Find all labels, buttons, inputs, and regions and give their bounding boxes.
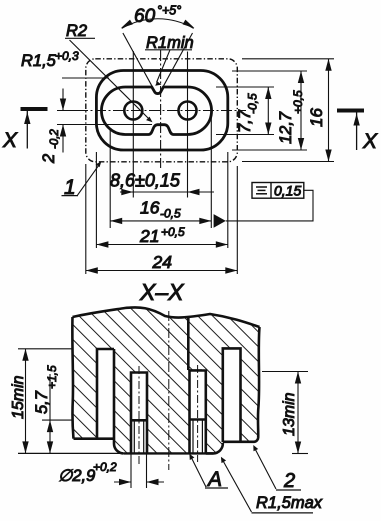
left pin centerline xyxy=(138,366,140,464)
dim 16 height extension lines xyxy=(242,58,334,60)
dim 7,7 extension lines xyxy=(216,86,274,88)
dim 16-0,5 line xyxy=(110,220,211,222)
svg-text:+0,3: +0,3 xyxy=(55,49,79,63)
dim 15min line xyxy=(25,349,27,454)
svg-text:15min: 15min xyxy=(10,375,27,419)
dim 5,7 line xyxy=(49,374,51,453)
left pin hole channel xyxy=(131,373,147,454)
V-notch leg extensions for 60 deg xyxy=(123,33,154,90)
tolerance frame xyxy=(252,183,304,199)
block outline: top wavy edge xyxy=(73,307,260,327)
svg-text:R1,5: R1,5 xyxy=(21,52,57,70)
left wall bottom and slot floor xyxy=(74,437,115,440)
dim dia 2,9 extension lines xyxy=(130,453,132,488)
svg-text:16: 16 xyxy=(307,108,326,127)
60 arc left arrowhead xyxy=(121,20,133,28)
dim 21 line xyxy=(96,244,227,246)
svg-text:21: 21 xyxy=(139,226,159,246)
vertical centerline xyxy=(160,50,162,168)
datum triangle xyxy=(214,214,226,228)
section cut mark left xyxy=(21,107,48,111)
left pin slit edges xyxy=(133,420,135,453)
section block hatched body xyxy=(72,307,259,453)
svg-text:R1,5max: R1,5max xyxy=(256,494,323,512)
60 arc right arrowhead xyxy=(183,20,195,28)
R1,5 leader xyxy=(62,77,109,79)
dim 5,7 extension line xyxy=(42,419,72,421)
central divider step edge xyxy=(187,318,190,370)
pin hole right xyxy=(179,102,197,120)
inner opening contour 16 wide xyxy=(101,87,211,135)
right foot radius xyxy=(206,443,223,454)
dim 16-0,5 extension lines xyxy=(109,129,111,229)
svg-text:24: 24 xyxy=(152,252,173,272)
left contact slot xyxy=(97,349,114,439)
svg-text:5,7: 5,7 xyxy=(33,390,51,414)
svg-text:+1,5: +1,5 xyxy=(45,365,59,389)
dim dia 2,9 line with outside arrows xyxy=(114,481,131,483)
hole axis line right xyxy=(187,52,189,198)
block right edge xyxy=(258,327,260,437)
svg-text:2: 2 xyxy=(40,154,58,164)
datum leader to frame xyxy=(226,190,313,221)
svg-text:∅2,9: ∅2,9 xyxy=(58,467,95,485)
leader 2 xyxy=(255,448,276,489)
right contact slot xyxy=(223,348,241,442)
outer hidden rounded rectangle 24x16 (dashed) xyxy=(86,59,238,162)
left pin hole bottom xyxy=(131,419,147,422)
svg-text:X–X: X–X xyxy=(139,279,185,305)
svg-text:8,6±0,15: 8,6±0,15 xyxy=(110,171,181,191)
dim 12,7 line xyxy=(300,71,302,150)
dim 7,7 line xyxy=(267,87,269,135)
dim 13min extension lines xyxy=(262,371,308,373)
R1min leader xyxy=(157,50,171,83)
svg-text:X: X xyxy=(2,129,18,152)
right pin centerline xyxy=(197,365,199,462)
svg-text:°+5°: °+5° xyxy=(157,4,181,18)
right slot floor and wall bottom xyxy=(223,437,258,442)
left slot right wall / pillar edge with foot radius xyxy=(114,349,124,453)
leader 1 xyxy=(78,164,100,195)
bottom base line xyxy=(18,452,124,454)
dim 21 extension lines xyxy=(95,152,97,248)
right pin slit edges xyxy=(192,420,194,454)
svg-text:0,15: 0,15 xyxy=(274,183,301,199)
60 deg dimension arc xyxy=(122,19,194,29)
dim 24 line xyxy=(86,270,238,272)
svg-text:16: 16 xyxy=(140,198,160,218)
svg-text:-0,5: -0,5 xyxy=(160,207,181,221)
svg-text:12,7: 12,7 xyxy=(277,111,295,144)
pin hole left xyxy=(124,102,142,120)
svg-text:+0,5: +0,5 xyxy=(291,90,305,114)
svg-text:X: X xyxy=(362,130,378,153)
dim 8,6 line xyxy=(120,191,214,193)
dim 15min extension line xyxy=(18,348,72,350)
svg-text:-0,2: -0,2 xyxy=(49,129,61,149)
section cut mark right xyxy=(337,109,364,113)
dim 2-0,2 extension lines xyxy=(57,110,79,112)
leader R1,5max xyxy=(222,460,251,513)
block left edge xyxy=(72,317,73,439)
svg-text:2: 2 xyxy=(283,470,295,492)
dim 13min line xyxy=(297,372,299,454)
leader A xyxy=(191,457,206,488)
right pin hole bottom xyxy=(190,418,206,421)
dim 2-0,2 lines and arrows xyxy=(62,89,64,111)
horizontal centerline xyxy=(77,110,246,112)
svg-text:R2: R2 xyxy=(66,22,87,40)
svg-text:+0,5: +0,5 xyxy=(161,225,185,239)
svg-text:13min: 13min xyxy=(281,392,298,436)
right pin hole channel xyxy=(190,371,206,454)
dim 16 height line xyxy=(328,59,330,162)
svg-text:-0,5: -0,5 xyxy=(246,93,260,114)
svg-text:+0,2: +0,2 xyxy=(93,460,117,474)
outer stadium contour 21x12.7 xyxy=(96,71,227,151)
dim 24 extension lines xyxy=(85,164,87,274)
symmetry symbol xyxy=(256,186,267,188)
R2 leader xyxy=(70,40,151,121)
svg-text:60: 60 xyxy=(134,6,156,27)
section view centerline xyxy=(168,311,170,470)
hole axis line left xyxy=(132,51,134,198)
dim 12,7 extension lines xyxy=(232,70,307,72)
